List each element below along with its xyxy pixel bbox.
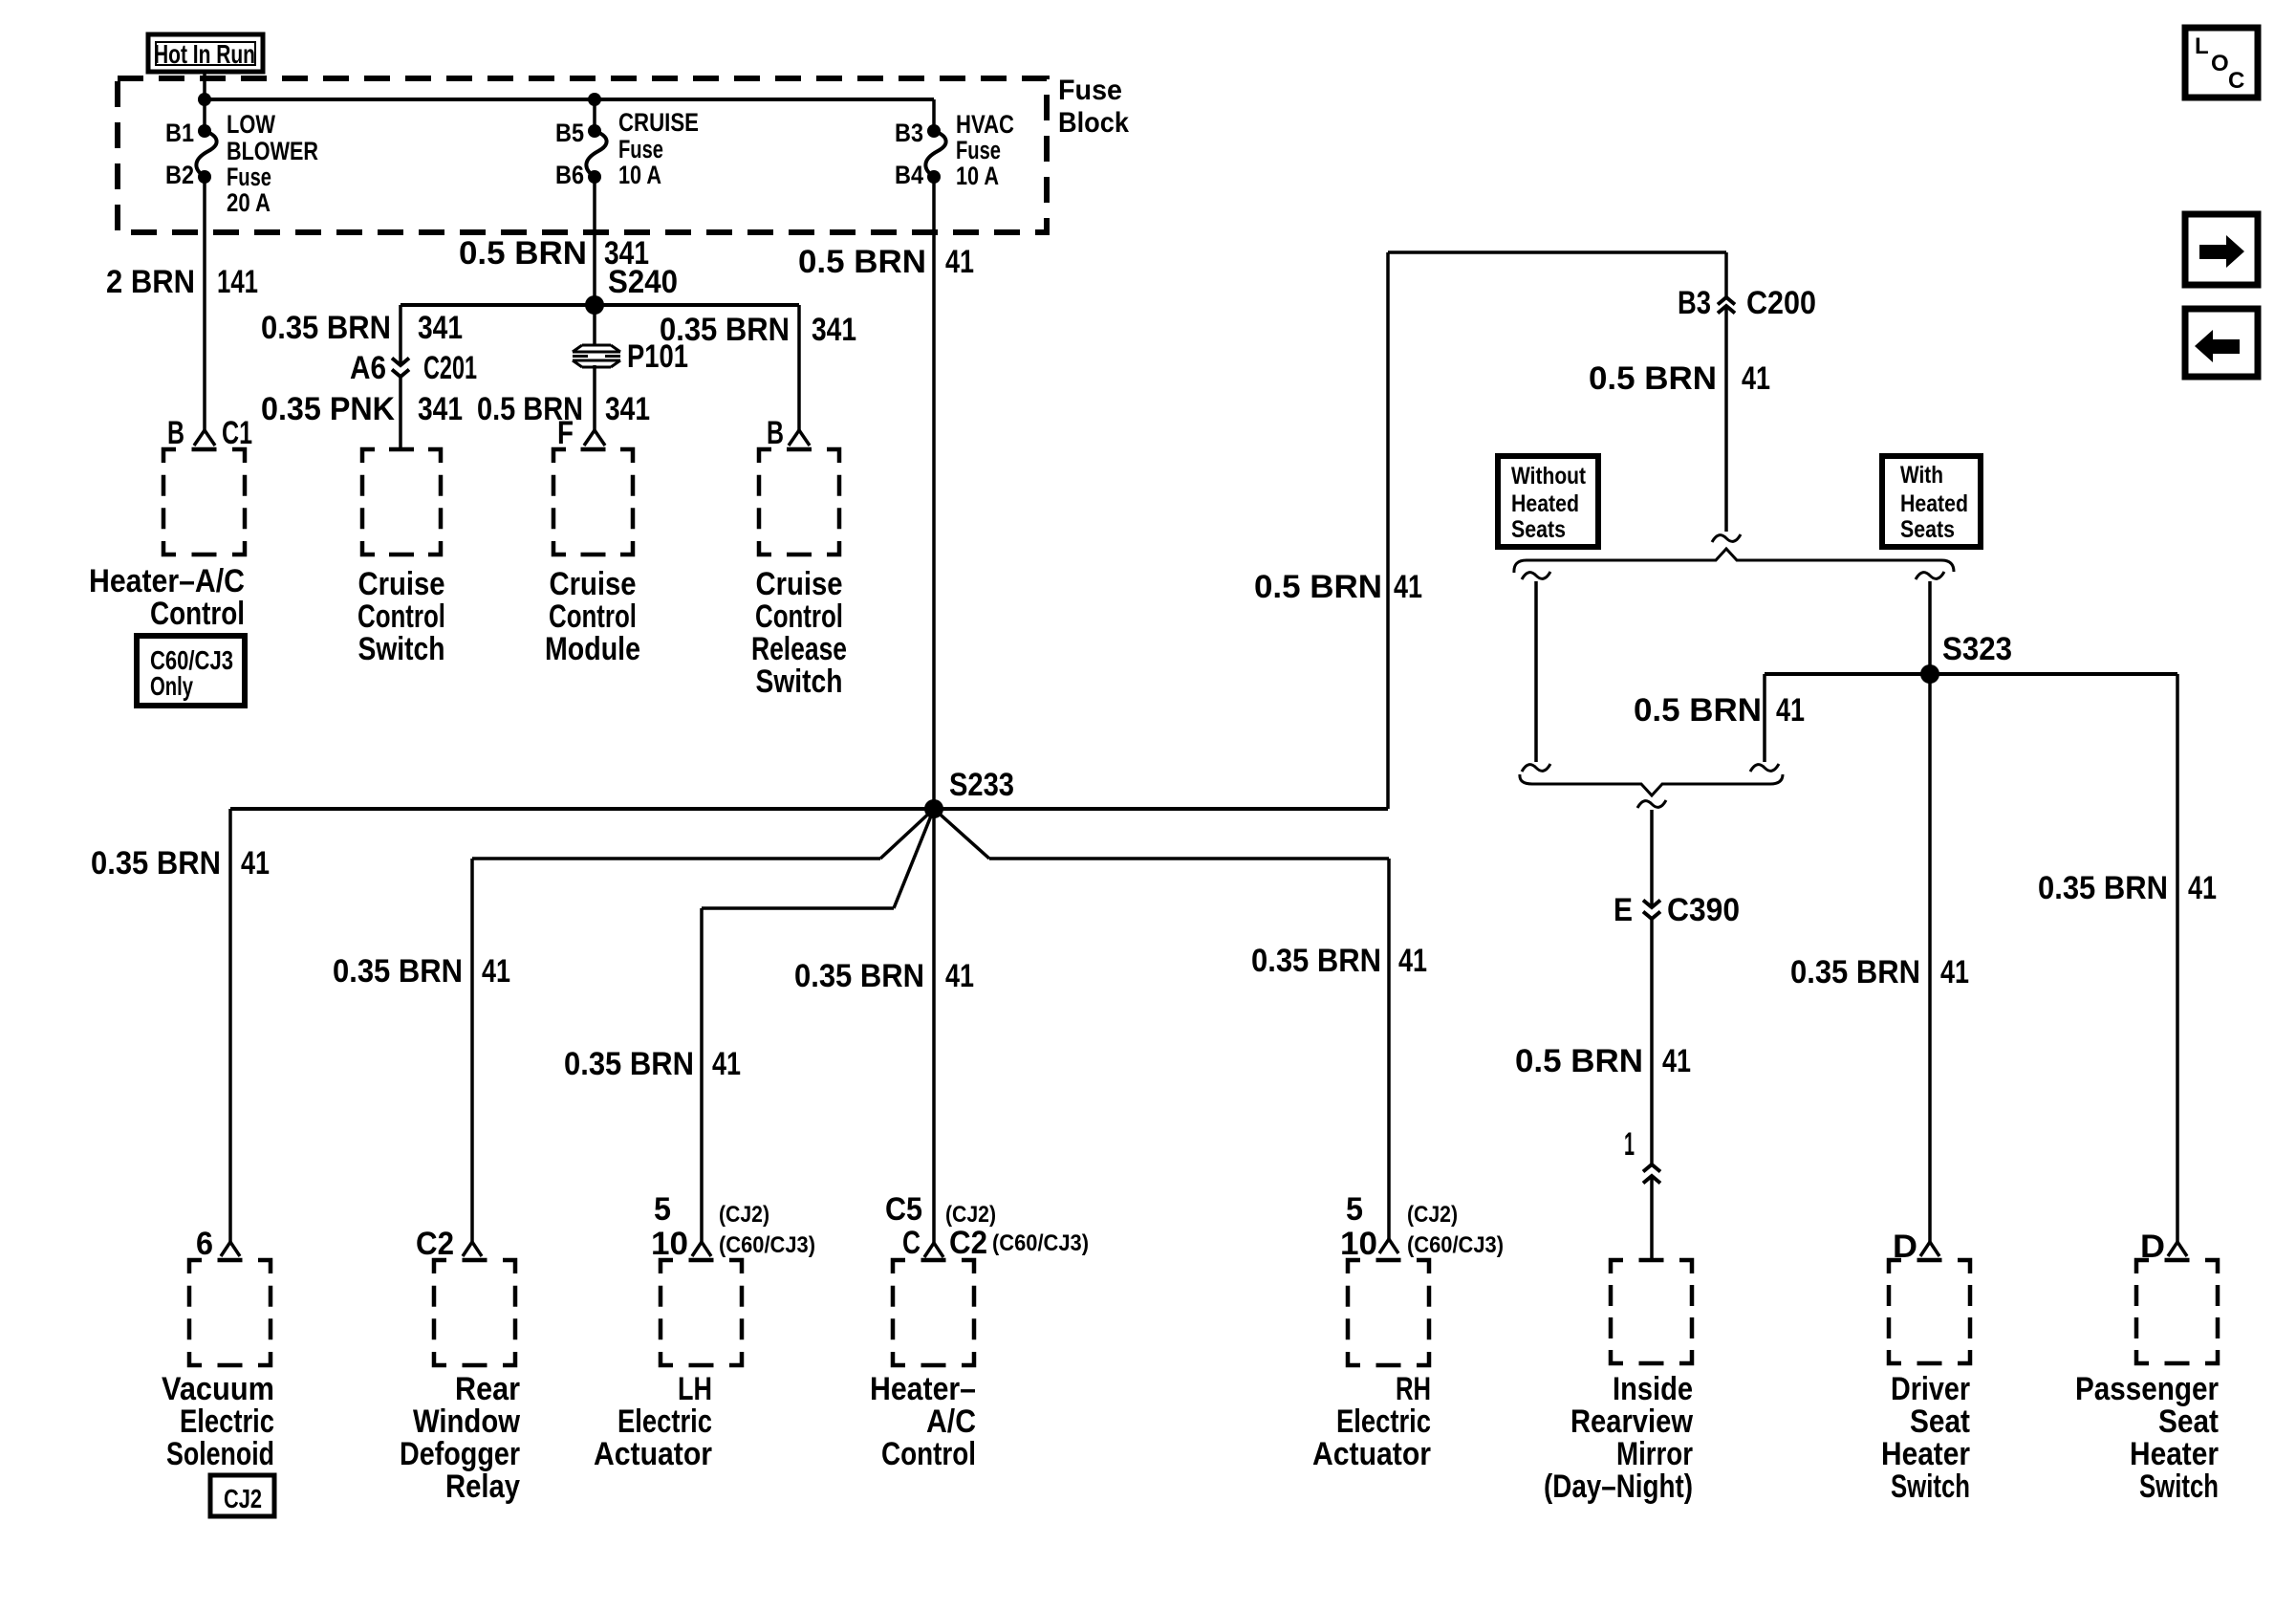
svg-text:Module: Module <box>545 631 640 667</box>
fuse F2 CRUISE 10A element <box>586 131 606 177</box>
wire: defogger branch down <box>470 859 474 1242</box>
svg-text:Fuse: Fuse <box>227 163 271 191</box>
wire: B4 down to S233 <box>932 177 936 809</box>
svg-text:Cruise: Cruise <box>358 566 445 602</box>
svg-text:Seat: Seat <box>2158 1403 2219 1440</box>
svg-text:141: 141 <box>217 264 258 300</box>
connector C201 double chevron <box>392 359 409 366</box>
svg-text:Hot In Run: Hot In Run <box>154 39 255 69</box>
wire: C201 down to Cruise Control Switch <box>399 377 402 449</box>
connector pin arrow at Cruise Control Module <box>584 430 605 446</box>
component box: Driver Seat Heater Switch <box>1889 1260 1970 1363</box>
component box: RH Electric Actuator <box>1348 1260 1429 1365</box>
svg-text:41: 41 <box>1662 1043 1691 1079</box>
svg-text:41: 41 <box>1398 943 1427 979</box>
svg-text:HVAC: HVAC <box>956 110 1014 139</box>
svg-text:Cruise: Cruise <box>756 566 843 602</box>
wire: S233 right horizontal <box>934 807 1388 811</box>
wire: S323 left drop to option merge <box>1763 674 1766 762</box>
svg-text:Relay: Relay <box>445 1469 520 1505</box>
wire: B6 down to S240 <box>593 177 596 305</box>
svg-text:41: 41 <box>945 958 974 994</box>
svg-text:41: 41 <box>1394 569 1422 605</box>
svg-text:C390: C390 <box>1667 892 1740 928</box>
svg-text:Passenger: Passenger <box>2075 1371 2219 1407</box>
connector pin arrow at Release Switch <box>789 430 810 446</box>
svg-text:(Day–Night): (Day–Night) <box>1544 1469 1693 1505</box>
connector pin arrow at C1 <box>194 430 215 446</box>
svg-text:0.35 BRN: 0.35 BRN <box>2038 870 2168 906</box>
wire: merged option to mirror, top tilde <box>1637 800 1666 808</box>
option split over-brace <box>1514 549 1954 573</box>
svg-text:41: 41 <box>1940 954 1969 990</box>
svg-text:Electric: Electric <box>180 1403 274 1440</box>
option label box: Without Heated Seats <box>1498 456 1598 547</box>
wire: S233 diagonal to LH actuator branch <box>894 809 934 908</box>
svg-text:41: 41 <box>482 953 510 990</box>
svg-text:2 BRN: 2 BRN <box>106 264 195 300</box>
splice S323 junction <box>1920 664 1939 684</box>
wire: S233 diagonal to defogger branch <box>880 809 934 859</box>
svg-text:0.35 PNK: 0.35 PNK <box>261 391 395 427</box>
svg-text:A6: A6 <box>350 350 386 386</box>
option note box CJ2 <box>210 1475 274 1516</box>
svg-text:Inside: Inside <box>1613 1371 1693 1407</box>
fuse F3 terminal B4 <box>927 170 941 184</box>
svg-text:LH: LH <box>678 1371 712 1407</box>
svg-text:Release: Release <box>751 631 847 667</box>
svg-text:0.35 BRN: 0.35 BRN <box>1251 943 1381 979</box>
connector pin arrow at driver switch <box>1920 1242 1939 1256</box>
svg-text:10: 10 <box>1340 1226 1377 1262</box>
svg-text:Heater: Heater <box>1881 1436 1970 1472</box>
svg-text:Control: Control <box>755 598 843 635</box>
wire: S323 horizontal <box>1765 672 2177 676</box>
component box: Heater-A/C Control (bottom) <box>893 1260 974 1365</box>
svg-text:BLOWER: BLOWER <box>227 137 318 165</box>
svg-text:C200: C200 <box>1746 285 1816 321</box>
svg-text:B6: B6 <box>555 161 584 189</box>
svg-text:Switch: Switch <box>1891 1469 1970 1505</box>
svg-text:Switch: Switch <box>2139 1469 2219 1505</box>
wire: fuse block bus <box>205 98 934 101</box>
svg-text:Heated: Heated <box>1511 490 1579 517</box>
svg-text:Switch: Switch <box>756 664 843 700</box>
svg-text:Seats: Seats <box>1900 516 1955 543</box>
svg-text:0.5 BRN: 0.5 BRN <box>1634 692 1762 729</box>
svg-text:O: O <box>2211 51 2229 76</box>
fuse F2 terminal B6 <box>588 170 601 184</box>
svg-text:Heated: Heated <box>1900 490 1968 517</box>
wire: B2 down to Heater-A/C Control <box>203 177 206 430</box>
legend icon: right arrow box <box>2185 214 2258 285</box>
wire: option merge to C390 <box>1650 810 1654 907</box>
svg-text:341: 341 <box>418 391 463 427</box>
wire: C200 to option brace <box>1724 306 1728 532</box>
fuse F3 terminal B3 <box>927 124 941 138</box>
svg-text:Rear: Rear <box>455 1371 520 1407</box>
wire: C200 drop <box>1724 252 1728 297</box>
svg-text:41: 41 <box>1776 692 1805 729</box>
wire: P101 down to Cruise Control Module <box>593 365 596 430</box>
svg-text:Seat: Seat <box>1910 1403 1970 1440</box>
option wire without heated seats: vertical <box>1534 581 1538 762</box>
svg-text:E: E <box>1614 892 1633 928</box>
legend icon: left arrow box <box>2185 309 2258 377</box>
svg-text:Driver: Driver <box>1891 1371 1970 1407</box>
svg-text:With: With <box>1900 462 1943 489</box>
pass-through grommet P101 symbol <box>582 344 611 347</box>
fuse block dashed box <box>118 78 1047 232</box>
svg-text:F: F <box>557 415 574 451</box>
svg-text:A/C: A/C <box>926 1403 976 1440</box>
svg-text:Actuator: Actuator <box>1312 1436 1431 1472</box>
component box: Cruise Control Release Switch <box>759 449 839 555</box>
svg-text:Electric: Electric <box>617 1403 712 1440</box>
option note box C60/CJ3 Only <box>137 636 245 706</box>
option label box: With Heated Seats <box>1882 456 1981 547</box>
svg-text:5: 5 <box>1346 1191 1363 1228</box>
svg-text:C2: C2 <box>949 1225 987 1261</box>
svg-text:Heater: Heater <box>2130 1436 2219 1472</box>
svg-text:B4: B4 <box>895 161 923 189</box>
option wire with heated seats: top tilde <box>1916 572 1944 579</box>
svg-text:Fuse: Fuse <box>618 135 663 163</box>
svg-text:B1: B1 <box>165 119 194 147</box>
svg-text:Seats: Seats <box>1511 516 1566 543</box>
option wire without heated seats: bottom tilde <box>1522 764 1550 772</box>
component box: LH Electric Actuator <box>661 1260 742 1365</box>
svg-text:Control: Control <box>881 1436 976 1472</box>
fuse F1 LOW BLOWER 20A element <box>196 131 216 177</box>
connector pin arrow at heater control <box>924 1243 943 1257</box>
svg-text:B2: B2 <box>165 161 194 189</box>
wire: Hot In Run to bus <box>203 72 206 99</box>
component box: Inside Rearview Mirror <box>1611 1260 1692 1363</box>
svg-text:B3: B3 <box>895 119 923 147</box>
svg-text:10 A: 10 A <box>618 161 661 189</box>
component box: Cruise Control Switch <box>362 449 441 555</box>
splice S233 junction <box>924 799 943 818</box>
svg-text:41: 41 <box>712 1046 741 1082</box>
svg-text:L: L <box>2195 33 2209 59</box>
svg-text:0.5 BRN: 0.5 BRN <box>1589 360 1717 397</box>
wire: C390 to mirror pin 1 <box>1650 919 1654 1164</box>
svg-text:Window: Window <box>413 1403 520 1440</box>
component box: Rear Window Defogger Relay <box>434 1260 515 1365</box>
svg-text:Control: Control <box>549 598 637 635</box>
junction at B5 tap <box>588 93 601 106</box>
svg-text:C: C <box>2228 68 2244 94</box>
wire: S323 right corner down to Passenger switch <box>2176 674 2179 1242</box>
svg-text:Rearview: Rearview <box>1570 1403 1693 1440</box>
svg-text:Heater–A/C: Heater–A/C <box>89 563 245 599</box>
svg-text:B3: B3 <box>1678 285 1711 321</box>
wire: S240 horizontal bus <box>401 303 799 307</box>
option wire without heated seats: top tilde <box>1522 572 1550 579</box>
svg-text:41: 41 <box>2188 870 2217 906</box>
svg-text:(C60/CJ3): (C60/CJ3) <box>992 1230 1089 1256</box>
svg-text:(CJ2): (CJ2) <box>1407 1202 1458 1228</box>
svg-text:Block: Block <box>1058 107 1129 139</box>
svg-text:(C60/CJ3): (C60/CJ3) <box>1407 1232 1504 1258</box>
mirror connector double chevron up <box>1643 1164 1660 1172</box>
svg-text:(CJ2): (CJ2) <box>719 1202 769 1228</box>
svg-text:41: 41 <box>1742 360 1770 397</box>
fuse F1 terminal B1 <box>198 124 211 138</box>
svg-text:0.35 BRN: 0.35 BRN <box>1790 954 1920 990</box>
wire: S233 up right riser <box>1386 252 1390 809</box>
wire: bus to B1 <box>203 99 206 131</box>
svg-text:Defogger: Defogger <box>400 1436 520 1472</box>
svg-text:(C60/CJ3): (C60/CJ3) <box>719 1232 815 1258</box>
legend icon: LOC box <box>2185 28 2258 98</box>
svg-text:S233: S233 <box>949 767 1014 803</box>
wire: S233 left horizontal <box>230 807 934 811</box>
svg-text:0.5 BRN: 0.5 BRN <box>459 235 587 272</box>
connector pin arrow at passenger switch <box>2168 1242 2187 1256</box>
svg-text:Mirror: Mirror <box>1616 1436 1693 1472</box>
svg-text:341: 341 <box>605 391 650 427</box>
svg-text:Vacuum: Vacuum <box>162 1371 274 1407</box>
svg-text:LOW: LOW <box>227 110 275 139</box>
wire: top horizontal to C200 <box>1388 250 1726 254</box>
svg-text:CRUISE: CRUISE <box>618 108 699 137</box>
svg-text:Electric: Electric <box>1336 1403 1431 1440</box>
svg-text:CJ2: CJ2 <box>224 1484 262 1513</box>
svg-text:0.35 BRN: 0.35 BRN <box>794 958 924 994</box>
wire: LH actuator horizontal <box>702 906 894 910</box>
svg-text:C: C <box>902 1225 921 1261</box>
wire: left branch down to Vacuum Electric Solenoid <box>228 809 232 1242</box>
svg-text:Fuse: Fuse <box>956 136 1001 164</box>
component box: Heater-A/C Control (top) <box>163 449 245 555</box>
svg-text:RH: RH <box>1396 1371 1431 1407</box>
wire: bus to B5 <box>593 99 596 131</box>
svg-text:0.35 BRN: 0.35 BRN <box>261 310 391 346</box>
svg-text:41: 41 <box>945 244 974 280</box>
svg-text:Without: Without <box>1511 463 1587 490</box>
svg-text:0.35 BRN: 0.35 BRN <box>660 312 790 348</box>
svg-text:0.35 BRN: 0.35 BRN <box>564 1046 694 1082</box>
svg-text:20 A: 20 A <box>227 188 271 217</box>
wire: RH actuator horizontal <box>989 857 1389 860</box>
connector C390 double chevron down <box>1643 901 1660 908</box>
svg-text:0.35 BRN: 0.35 BRN <box>333 953 463 990</box>
svg-text:41: 41 <box>241 845 270 881</box>
svg-text:341: 341 <box>418 310 463 346</box>
svg-text:B: B <box>167 415 184 451</box>
wire: S240 left branch down <box>399 305 402 365</box>
component box: Vacuum Electric Solenoid <box>189 1260 271 1365</box>
svg-text:Fuse: Fuse <box>1058 75 1122 106</box>
connector C200 double chevron up <box>1718 297 1735 305</box>
svg-text:C1: C1 <box>222 415 252 451</box>
wire: LH actuator branch down <box>700 908 704 1242</box>
fuse F3 HVAC 10A element <box>925 131 945 177</box>
svg-text:Solenoid: Solenoid <box>166 1436 274 1472</box>
fuse F1 terminal B2 <box>198 170 211 184</box>
splice S240 junction <box>585 295 604 315</box>
svg-text:Control: Control <box>357 598 445 635</box>
svg-text:Only: Only <box>150 671 193 701</box>
svg-text:0.5 BRN: 0.5 BRN <box>1254 569 1382 605</box>
svg-text:5: 5 <box>654 1191 671 1228</box>
svg-text:S240: S240 <box>608 264 678 300</box>
wire: bus corner down to B3 <box>932 99 936 131</box>
wire: S233 down to Heater-A/C Control (bottom) <box>932 809 936 1243</box>
power source label box: Hot In Run <box>148 34 263 72</box>
wire end tilde above option brace <box>1712 534 1741 542</box>
connector pin arrow at defogger relay <box>463 1242 482 1256</box>
svg-text:341: 341 <box>812 312 856 348</box>
wire: pin 1 into mirror box <box>1650 1176 1654 1260</box>
svg-text:B: B <box>767 415 784 451</box>
connector pin arrow at LH actuator <box>692 1242 711 1256</box>
wire: S240 center down to P101 <box>593 305 596 345</box>
option merge under-brace <box>1520 774 1783 795</box>
component box: Passenger Seat Heater Switch <box>2136 1260 2218 1363</box>
component box: Cruise Control Module <box>553 449 633 555</box>
wire: S233 diagonal to RH actuator branch <box>934 809 989 859</box>
svg-text:(CJ2): (CJ2) <box>945 1202 996 1228</box>
svg-text:C5: C5 <box>885 1191 922 1228</box>
svg-text:0.5 BRN: 0.5 BRN <box>1515 1043 1643 1079</box>
svg-text:10 A: 10 A <box>956 162 999 190</box>
wire: with-heated-seats down through S323 to Driver switch <box>1928 581 1932 1242</box>
svg-text:Switch: Switch <box>358 631 445 667</box>
svg-text:Actuator: Actuator <box>594 1436 712 1472</box>
svg-text:Heater–: Heater– <box>870 1371 976 1407</box>
svg-text:S323: S323 <box>1942 631 2012 667</box>
wire: defogger horizontal <box>472 857 880 860</box>
svg-text:Cruise: Cruise <box>550 566 637 602</box>
wire: S240 right branch down <box>797 305 801 430</box>
svg-text:0.35 BRN: 0.35 BRN <box>91 845 221 881</box>
junction at bus left <box>198 93 211 106</box>
connector pin arrow at RH actuator <box>1379 1239 1398 1253</box>
svg-text:Control: Control <box>150 596 245 632</box>
option merge wire bottom tilde <box>1750 764 1779 772</box>
svg-text:6: 6 <box>196 1226 213 1262</box>
svg-text:10: 10 <box>651 1226 688 1262</box>
fuse F2 terminal B5 <box>588 124 601 138</box>
svg-text:B5: B5 <box>555 119 584 147</box>
wire: RH actuator branch down <box>1387 859 1391 1239</box>
svg-text:0.5 BRN: 0.5 BRN <box>798 244 926 280</box>
connector pin arrow at solenoid <box>221 1242 240 1256</box>
svg-text:1: 1 <box>1624 1126 1635 1163</box>
svg-text:C2: C2 <box>416 1226 454 1262</box>
svg-text:C201: C201 <box>423 350 477 386</box>
